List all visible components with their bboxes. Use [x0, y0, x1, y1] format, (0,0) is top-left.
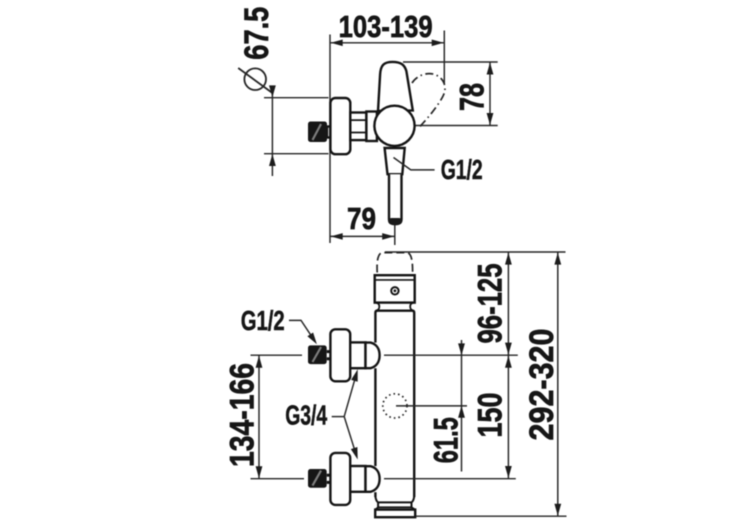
lower union: dome nut [366, 466, 380, 492]
handle ghost (tilted, dash-dot) [412, 74, 445, 128]
lower union: thread ticks [327, 474, 331, 477]
dimension 61.5 [461, 340, 463, 472]
lower union: knurled nut [308, 469, 327, 488]
knob (side view, knurled, black) [327, 127, 330, 138]
wire: lower centerline [251, 478, 305, 480]
threads / stepped cylinder [350, 113, 366, 141]
dimension 103-139 line [330, 42, 444, 44]
upper union: body [350, 342, 365, 368]
svg-text:G1/2: G1/2 [241, 305, 285, 336]
leader G1/2 (top view) [394, 158, 435, 170]
svg-text:103-139: 103-139 [339, 9, 433, 44]
lower union: escutcheon [330, 453, 350, 505]
taper below valve [385, 148, 405, 174]
svg-text:150: 150 [472, 393, 510, 438]
valve body circle [374, 106, 414, 146]
svg-text:79: 79 [347, 201, 376, 236]
upper union: thread ticks [327, 350, 331, 353]
svg-text:292-320: 292-320 [523, 329, 561, 441]
escutcheon (side view) [330, 98, 350, 154]
dimension 150 [507, 355, 509, 479]
dimension 134-166 [258, 355, 260, 479]
cap [375, 275, 415, 302]
svg-text:61.5: 61.5 [428, 417, 466, 463]
svg-text:96-125: 96-125 [472, 264, 510, 344]
outlet tube [389, 174, 402, 224]
wire: extension below tube / centerline [394, 225, 396, 245]
svg-text:G3/4: G3/4 [285, 400, 327, 431]
outlet circle (dashed) [383, 394, 407, 418]
lower union: body [350, 466, 365, 492]
screw [391, 287, 398, 294]
dome (dashed) [377, 253, 413, 273]
dimension 79 [330, 235, 395, 237]
wire: top extension line [385, 251, 566, 253]
wire: wall plane extension line [329, 35, 331, 244]
dimension 292-320 [557, 252, 559, 516]
wire: upper centerline [251, 354, 303, 356]
body tube [375, 311, 414, 497]
dimension diameter 67.5 [244, 68, 266, 90]
outlet tube dark end cap [388, 218, 402, 224]
svg-text:78: 78 [454, 83, 492, 111]
svg-text:67.5: 67.5 [238, 7, 276, 60]
svg-text:G1/2: G1/2 [441, 154, 483, 185]
collar [376, 303, 380, 311]
wire: bottom extension line [416, 515, 567, 517]
wire: right extension of 103-139 [443, 31, 445, 85]
dimension 78 [403, 61, 498, 63]
upper union: knurled nut [308, 345, 327, 364]
wire: line from outlet circle center [396, 405, 467, 407]
upper union: escutcheon [330, 329, 350, 381]
svg-text:134-166: 134-166 [224, 363, 262, 467]
body bottom neck + ring [375, 497, 414, 503]
dimension 96-125 [507, 252, 509, 355]
upper union: dome nut [366, 343, 380, 369]
handle (upright) [378, 62, 413, 111]
